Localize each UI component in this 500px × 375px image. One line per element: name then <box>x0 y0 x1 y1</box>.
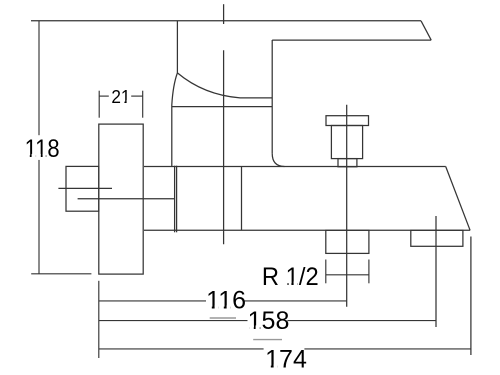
dim 21 line right <box>131 95 143 97</box>
cartridge centerline upper <box>223 4 225 24</box>
lever handle left edge <box>176 21 178 73</box>
column left edge <box>171 105 173 167</box>
body left joint line 2 <box>176 166 178 233</box>
svg-text:R 1/2: R 1/2 <box>262 263 319 291</box>
body left joint line 1 <box>174 166 176 233</box>
174 right extension line <box>470 237 472 356</box>
serif patches to mimic Arial digit 1 <box>26 154 30 158</box>
dim 116 line left <box>99 300 206 302</box>
svg-text:158: 158 <box>248 307 290 335</box>
dim R1/2 line <box>326 274 369 276</box>
body bottom edge <box>144 229 470 231</box>
shower outlet connector <box>326 230 369 253</box>
wall pipe centerline <box>58 187 112 189</box>
dim 21 line left <box>99 95 109 97</box>
column right edge <box>271 40 273 153</box>
svg-text:116: 116 <box>206 287 246 315</box>
diverter knob neck <box>338 159 357 167</box>
svg-text:174: 174 <box>265 346 307 374</box>
dims left extension line <box>98 281 100 358</box>
dim 174 line right <box>304 348 471 350</box>
dome left arc <box>172 73 178 105</box>
dim R1/2 right tick <box>368 260 370 284</box>
wall pipe lower line <box>78 198 175 200</box>
diverter knob cap <box>326 116 369 126</box>
dim 116 line right <box>245 300 347 302</box>
dim 118 bottom extension <box>31 273 91 275</box>
dim 21 left tick <box>98 91 100 118</box>
body top edge <box>144 166 446 168</box>
dim 118 vertical line lower <box>38 160 40 274</box>
right outlet centerline <box>435 216 437 327</box>
wall pipe rectangle <box>66 166 99 211</box>
svg-text:21: 21 <box>111 86 130 107</box>
dim 158 line right <box>287 320 436 322</box>
diverter knob stem <box>331 126 362 159</box>
lever handle top edge (also 118 top extension) <box>31 20 421 22</box>
wall flange rectangle <box>99 124 143 274</box>
cartridge dome swoosh curve <box>177 73 272 98</box>
right outlet connector <box>411 230 463 246</box>
stray dash under 116 <box>210 317 236 319</box>
body right slant edge <box>446 167 470 231</box>
column right fillet <box>272 153 284 166</box>
dim 174 line left <box>99 348 264 350</box>
stray dash under 158 <box>253 339 282 341</box>
dim 158 line left <box>99 320 248 322</box>
body internal joint line <box>241 167 243 231</box>
diverter centerline <box>346 105 348 307</box>
cartridge centerline lower <box>223 50 225 244</box>
svg-text:118: 118 <box>25 135 60 163</box>
dim R1/2 left tick <box>325 260 327 284</box>
dim 118 vertical line upper <box>38 21 40 135</box>
dim 21 right tick <box>142 91 144 118</box>
lever handle right slant <box>421 21 431 40</box>
dome shoulder line <box>172 106 272 108</box>
lever handle bottom edge <box>272 39 431 41</box>
